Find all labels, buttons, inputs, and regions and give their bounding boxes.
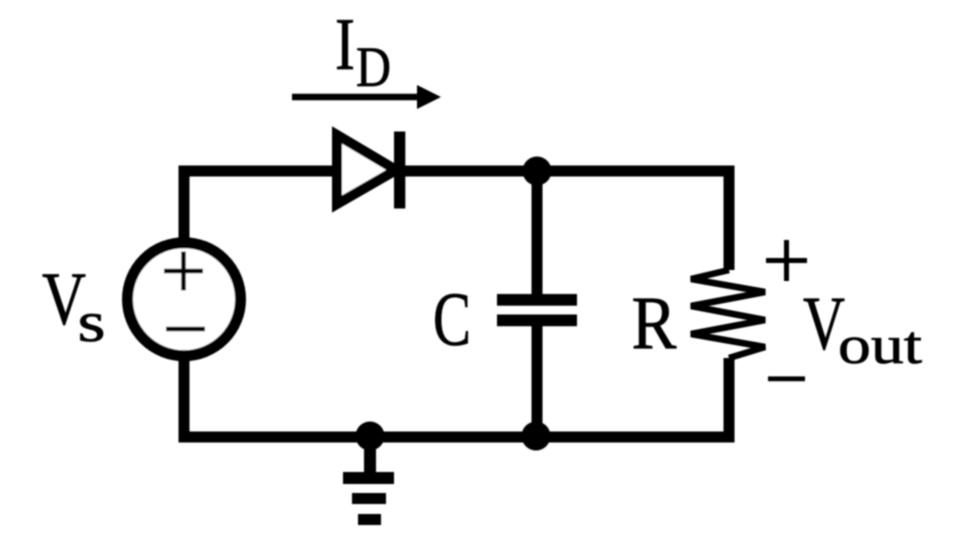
ground bar 1 [343,472,394,484]
svg-text:R: R [632,282,677,365]
label Vout plus sign [766,240,807,281]
svg-text:I: I [335,4,355,86]
svg-text:s: s [78,291,106,354]
wire capacitor bottom lead [532,324,543,437]
node dot: diode-capacitor junction [523,157,552,186]
capacitor C top plate [497,294,577,306]
capacitor C bottom plate [497,315,577,327]
ground bar 3 [358,514,381,525]
svg-text:out: out [838,315,922,375]
svg-text:D: D [356,36,391,99]
wire capacitor top lead [532,171,543,296]
node dot: ground junction [356,422,385,451]
voltage source plus sign [164,252,203,291]
wire bottom rail: source bottom, bottom-left corner, to bottom-right corner up to resistor bottom [184,358,729,437]
voltage source minus sign [166,327,205,332]
wire top-left segment: diode anode to top-left corner down to source top [184,171,337,239]
ground stem [364,437,376,472]
diode D1 cathode bar [394,132,405,209]
resistor R zigzag [691,270,765,358]
node dot: capacitor-bottom junction [522,422,551,451]
voltage source Vs circle [128,243,241,356]
current arrow I_D shaft [292,94,422,101]
svg-text:C: C [433,278,471,362]
ground bar 2 [352,493,386,504]
wire top-right segment: diode cathode through node to top-right corner down to resistor top [399,171,729,270]
current arrow I_D head [417,85,441,109]
diode D1 triangle [337,135,396,204]
label Vout minus sign [768,376,805,381]
